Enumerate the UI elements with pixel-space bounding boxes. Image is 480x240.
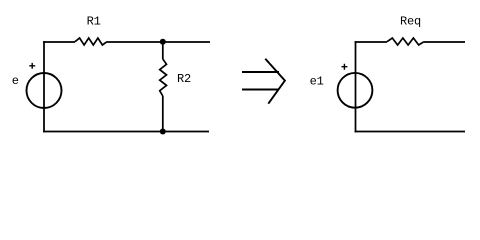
voltage source e xyxy=(12,63,62,108)
wire: left circuit top rail right segment xyxy=(107,41,210,43)
svg-text:Req: Req xyxy=(400,15,421,29)
wire: right circuit bottom rail xyxy=(355,131,465,133)
wire: right circuit top rail left segment xyxy=(355,41,387,43)
wire: right circuit top rail right segment xyxy=(424,41,465,43)
voltage source e1 xyxy=(310,64,373,108)
wire: left circuit left vertical branch xyxy=(43,41,45,132)
svg-text:R1: R1 xyxy=(87,14,101,28)
resistor Req xyxy=(387,15,424,45)
resistor R2 xyxy=(160,59,191,96)
equivalence arrow xyxy=(242,59,285,104)
svg-text:R2: R2 xyxy=(177,72,191,86)
wire: R2 branch bottom segment xyxy=(162,96,164,132)
resistor R1 xyxy=(75,14,107,45)
svg-text:e: e xyxy=(12,74,19,88)
wire: R2 branch top segment xyxy=(162,42,164,60)
node: top junction xyxy=(160,39,166,45)
wire: left circuit top rail left segment xyxy=(43,41,75,43)
wire: left circuit bottom rail xyxy=(43,131,209,133)
svg-text:e1: e1 xyxy=(310,75,324,89)
wire: right circuit left vertical branch xyxy=(355,41,357,132)
node: bottom junction xyxy=(160,129,166,135)
